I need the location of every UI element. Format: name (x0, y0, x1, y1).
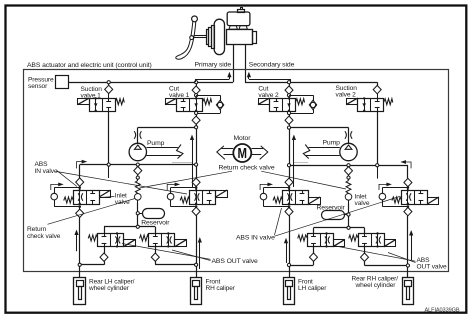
node pump 2 suction (347, 164, 350, 167)
svg-text:ABS actuator and electric unit: ABS actuator and electric unit (control … (27, 62, 152, 69)
svg-text:IN valve: IN valve (35, 168, 58, 175)
ghost line primary (172, 162, 192, 164)
svg-text:wheel cylinder: wheel cylinder (88, 285, 130, 292)
master cylinder body (227, 26, 257, 45)
flow arrow beside cut valve 2 line (293, 138, 295, 187)
wire: suction valve 2 output (377, 111, 379, 165)
node at cut valve 2 (287, 81, 290, 84)
filter below inlet valve 1L (79, 207, 81, 210)
return check valve secondary (347, 176, 350, 179)
pedal push rod (194, 35, 207, 37)
ABS IN valve 1L (rear LH) (74, 191, 100, 205)
svg-text:wheel cylinder: wheel cylinder (355, 282, 397, 289)
wire: cut valve 1 down line (196, 129, 198, 163)
drain OUT valve 1R (155, 261, 157, 264)
svg-text:Secondary side: Secondary side (249, 61, 295, 68)
node B secondary (287, 164, 290, 167)
wire: reservoir to ABS OUT valves secondary (314, 227, 365, 229)
master cylinder fluid reservoir (227, 8, 250, 26)
node at cut valve 1 (195, 81, 198, 84)
leader ABS OUT center (122, 244, 211, 260)
ABS IN valve 2L (front LH) (283, 191, 309, 205)
filter pump 1 suction (134, 166, 142, 174)
svg-text:RH caliper: RH caliper (206, 285, 236, 292)
node at suction valve 1 (107, 81, 110, 84)
svg-text:Reservoir: Reservoir (317, 205, 346, 212)
svg-text:valve 2: valve 2 (258, 92, 279, 99)
ABS OUT valve 1R (155, 227, 157, 233)
wire: cut valve 2 down line (289, 129, 291, 163)
drain OUT valve 1L (104, 261, 106, 264)
leader return check center (140, 171, 233, 188)
filter below inlet valve 2R (407, 206, 409, 209)
node B primary (195, 163, 198, 166)
rear LH wheel cylinder (74, 278, 86, 305)
node suction 1 junction (107, 163, 110, 166)
wire: main line pressure sensor to suction/cut valves (68, 82, 196, 84)
return flow arrow secondary (289, 82, 290, 84)
node reservoir secondary (347, 213, 350, 216)
flow arrow at inlet 2R feed corner (406, 162, 411, 168)
leader return check left (48, 199, 136, 225)
node pump 1 suction (136, 163, 139, 166)
svg-text:LH caliper: LH caliper (298, 285, 327, 292)
ABS OUT valve 1L (104, 227, 106, 233)
primary side line (233, 45, 235, 82)
flow arrow front RH riser (199, 241, 201, 270)
flow arrow rear RH riser (411, 234, 413, 261)
leader ABS IN left (57, 170, 78, 186)
junction rear LH riser (78, 263, 81, 266)
leader inlet valve left label (101, 197, 115, 198)
svg-text:Primary side: Primary side (195, 61, 232, 68)
svg-text:valve: valve (355, 200, 370, 207)
filter above inlet valve 1L (76, 178, 84, 186)
svg-text:ABS OUT valve: ABS OUT valve (212, 258, 258, 265)
filter suction valve 2 (373, 85, 381, 93)
filter below cut valve 2 (289, 114, 291, 116)
wire: cut valve 1 to pump 1 discharge (138, 127, 196, 129)
svg-text:Reservoir: Reservoir (141, 219, 170, 226)
front RH caliper cylinder (191, 278, 202, 305)
wire: to reservoir primary (137, 203, 139, 227)
node OUT line secondary (347, 226, 350, 229)
filter above inlet valve 2R (404, 178, 412, 186)
junction front RH riser (195, 263, 198, 266)
wire: reservoir to ABS OUT valves primary (104, 226, 155, 228)
svg-text:Pump: Pump (147, 140, 165, 147)
flow arrow at inlet 1L feed corner (77, 162, 82, 169)
svg-text:Return check valve: Return check valve (219, 165, 275, 172)
ghost line secondary (294, 162, 308, 164)
reservoir secondary (322, 211, 345, 220)
ABS OUT valve 2L (313, 228, 315, 233)
ABS IN valve 2R (rear RH) (402, 191, 428, 205)
svg-text:Motor: Motor (234, 135, 252, 142)
brake booster (207, 19, 225, 54)
brake pedal (176, 16, 198, 59)
reservoir primary (143, 209, 165, 219)
filter pump 2 suction (345, 167, 353, 175)
junction front LH riser (287, 263, 290, 266)
filter below cut valve 1 (196, 114, 198, 116)
node A primary (195, 126, 198, 129)
suction valve 2 (358, 99, 384, 112)
leader ABS OUT right (333, 246, 416, 262)
wire: secondary rail to suction valve 2 (289, 82, 377, 84)
svg-text:valve 2: valve 2 (336, 92, 357, 99)
front LH caliper cylinder (284, 278, 295, 305)
cut valve 1 (177, 99, 203, 112)
filter below inlet valve 2L (289, 206, 291, 209)
svg-text:M: M (238, 146, 248, 162)
svg-text:check valve: check valve (27, 233, 61, 240)
pump P1 (137, 128, 139, 144)
node suction 2 junction (376, 164, 379, 167)
svg-text:valve 1: valve 1 (81, 92, 102, 99)
node reservoir primary (136, 212, 139, 215)
wire: inlet valve 2R feed (407, 165, 409, 178)
flow arrow front LH riser (286, 241, 288, 263)
flow arrow rear LH riser (76, 233, 78, 251)
filter below inlet valve 1R (196, 206, 198, 209)
junction rear RH riser (406, 264, 409, 267)
wire: inlet valve 1L feed (79, 165, 81, 178)
filter above inlet valve 2L (285, 178, 293, 186)
wire: cut valve 2 to pump 2 discharge (289, 127, 349, 129)
svg-text:Pump: Pump (323, 140, 341, 147)
return check valve primary (136, 176, 139, 179)
secondary side line (245, 45, 247, 82)
ABS actuator control unit box (24, 70, 449, 272)
rear RH wheel cylinder (403, 278, 414, 305)
svg-text:valve 1: valve 1 (169, 92, 190, 99)
check valve bypass cut valve 2 (287, 94, 290, 97)
node OUT line primary (136, 225, 139, 228)
cut valve 2 (270, 99, 296, 112)
suction valve 1 (90, 99, 116, 112)
node A secondary (287, 126, 290, 129)
filter above inlet valve 1R (192, 178, 200, 186)
drain OUT valve 2R (364, 261, 366, 265)
motor drive shaft arrow right (251, 146, 267, 160)
return flow arrow primary (195, 79, 197, 82)
ABS OUT valve 2R (364, 228, 366, 233)
drain OUT valve 2L (313, 261, 315, 265)
wire: primary distribution rail (80, 164, 196, 166)
wire: secondary distribution rail (289, 165, 408, 167)
check valve bypass cut valve 1 (195, 94, 198, 97)
leader ABS IN center (275, 208, 282, 235)
svg-text:ALFIA0339GB: ALFIA0339GB (425, 307, 460, 313)
wire: to reservoir secondary (348, 203, 350, 228)
ABS IN valve 1R (front RH) (190, 191, 216, 205)
pressure sensor (56, 76, 69, 89)
filter suction valve 1 (105, 85, 113, 93)
motor drive shaft arrow left (217, 146, 233, 160)
svg-text:ABS IN valve: ABS IN valve (236, 235, 275, 242)
flow arrow beside cut valve 1 line (192, 138, 194, 187)
filter cut valve 1 (192, 86, 200, 94)
filter cut valve 2 (285, 86, 293, 94)
svg-text:OUT valve: OUT valve (417, 263, 448, 270)
wire: suction valve 1 output (108, 111, 110, 164)
svg-text:sensor: sensor (28, 83, 48, 90)
pump P2 (348, 128, 350, 144)
motor M (233, 144, 251, 162)
